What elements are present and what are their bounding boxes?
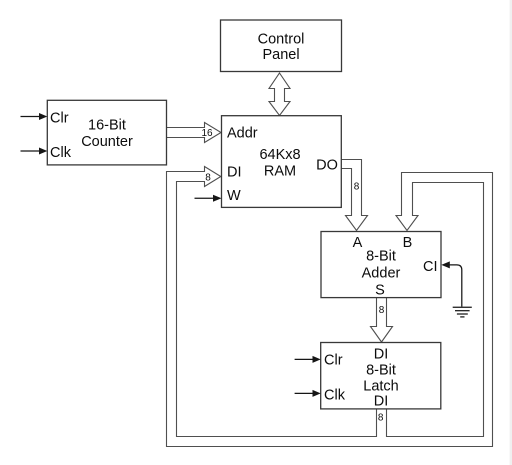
svg-text:W: W <box>227 188 241 204</box>
wire: CI to ground <box>450 265 462 307</box>
svg-text:8: 8 <box>378 413 384 424</box>
svg-text:RAM: RAM <box>264 164 296 180</box>
block: 16-Bit Counter <box>47 100 166 165</box>
svg-text:64Kx8: 64Kx8 <box>259 147 300 163</box>
svg-text:8: 8 <box>354 182 360 193</box>
label: 8-Bit Latch <box>363 347 398 410</box>
label: Control Panel <box>258 32 305 64</box>
wire: W input to RAM <box>195 197 215 199</box>
pin labels: latch Clr Clk <box>324 353 346 404</box>
svg-text:8: 8 <box>205 173 211 184</box>
block: 8-Bit Latch <box>321 343 441 409</box>
svg-text:8-Bit: 8-Bit <box>366 249 396 265</box>
bus arrow: Counter to RAM Addr (16) <box>167 123 222 143</box>
svg-text:DO: DO <box>316 158 338 174</box>
pin labels: RAM Addr DI W DO <box>227 126 338 205</box>
svg-text:Control: Control <box>258 32 305 48</box>
bus arrow: Adder S to Latch DI <box>371 298 393 343</box>
block: 64Kx8 RAM <box>222 116 342 208</box>
svg-text:Clr: Clr <box>50 111 69 127</box>
svg-text:B: B <box>403 235 413 251</box>
bus wire: feedback loop Latch DI out to RAM DI and Adder B (outer+inner contours with arrowheads) <box>167 167 493 447</box>
svg-text:Counter: Counter <box>81 134 133 150</box>
arrowhead: Clk counter <box>39 148 47 155</box>
scrollbar strip right edge <box>510 0 512 465</box>
ground symbol <box>453 307 472 317</box>
arrowhead: Clr counter <box>39 113 47 120</box>
wire: Clr input to counter <box>21 116 41 118</box>
block: 8-Bit Adder <box>321 232 441 298</box>
svg-text:DI: DI <box>227 165 242 181</box>
wire: Clk input to latch <box>295 392 314 394</box>
svg-text:DI: DI <box>374 347 389 363</box>
svg-text:Clr: Clr <box>324 353 343 369</box>
arrowhead: Clk latch <box>313 390 321 397</box>
label: 16-Bit Counter <box>81 118 133 151</box>
svg-text:16: 16 <box>201 128 213 139</box>
svg-text:8: 8 <box>379 305 385 316</box>
wire: Clr input to latch <box>295 358 314 360</box>
svg-text:S: S <box>375 283 385 299</box>
svg-text:DI: DI <box>374 394 389 410</box>
block: Control Panel <box>221 20 342 72</box>
svg-text:Adder: Adder <box>362 266 401 282</box>
arrowhead: CI adder (points left) <box>441 261 450 268</box>
arrowhead: Clr latch <box>313 356 321 363</box>
svg-text:Addr: Addr <box>227 126 258 142</box>
svg-text:16-Bit: 16-Bit <box>88 118 126 134</box>
svg-text:Latch: Latch <box>363 379 398 395</box>
label: 8-Bit Adder <box>353 235 413 299</box>
svg-text:Panel: Panel <box>262 47 299 63</box>
svg-text:8-Bit: 8-Bit <box>366 363 396 379</box>
svg-text:CI: CI <box>423 259 438 275</box>
bus wire: RAM DO to Adder A with arrowhead <box>342 160 368 231</box>
label: 64Kx8 RAM <box>259 147 300 180</box>
svg-text:A: A <box>353 235 363 251</box>
pin labels: counter Clr Clk <box>50 111 72 162</box>
bus arrow: Control Panel to RAM (double headed) <box>269 73 290 116</box>
svg-text:Clk: Clk <box>324 388 346 404</box>
svg-text:Clk: Clk <box>50 145 72 161</box>
arrowhead: W RAM <box>213 195 222 202</box>
wire: Clk input to counter <box>21 150 41 152</box>
